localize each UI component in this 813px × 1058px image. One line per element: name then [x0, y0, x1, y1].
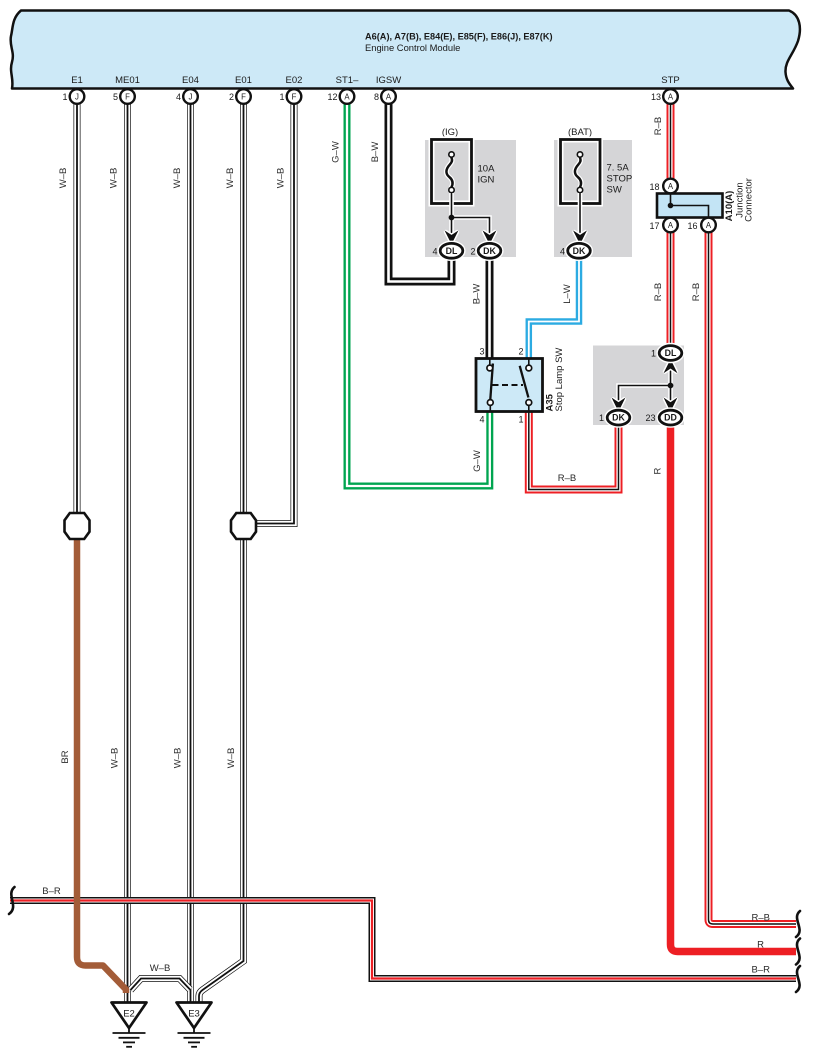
svg-text:1: 1	[651, 349, 656, 359]
svg-text:10A: 10A	[478, 164, 496, 175]
fuse block (IG) gray background	[425, 140, 516, 257]
wire link E2-E3 W-B	[131, 979, 191, 991]
junction connector A10(A) box	[657, 178, 755, 222]
break mark right R-B	[796, 911, 800, 937]
svg-text:13: 13	[651, 92, 661, 102]
svg-text:B–W: B–W	[370, 142, 381, 163]
svg-text:17: 17	[649, 221, 659, 231]
svg-text:1: 1	[279, 92, 284, 102]
arrow down into 23 DD	[665, 399, 676, 411]
pin 1 J (E1)	[62, 89, 84, 104]
svg-text:R–B: R–B	[558, 473, 576, 484]
pin 12 A (ST1-)	[327, 89, 354, 104]
svg-text:A: A	[668, 93, 674, 102]
wire junction 16A to right edge R-B	[709, 232, 797, 924]
pin 16 A circle	[687, 218, 715, 233]
svg-text:(IG): (IG)	[442, 127, 458, 138]
svg-text:W–B: W–B	[225, 168, 236, 189]
wire STP to junction 18A R-B	[667, 104, 675, 180]
svg-text:G–W: G–W	[331, 141, 342, 163]
svg-text:5: 5	[113, 92, 118, 102]
svg-text:23: 23	[645, 413, 655, 423]
svg-text:2: 2	[518, 347, 523, 357]
svg-text:J: J	[189, 93, 193, 102]
wire E04 W-B	[187, 104, 194, 1003]
break mark right R	[796, 939, 800, 965]
wire E1 W-B	[74, 104, 81, 514]
svg-text:3: 3	[479, 347, 484, 357]
fuse 10A IGN box	[432, 127, 496, 204]
arrow down into 1 DK	[613, 399, 624, 411]
svg-text:B–R: B–R	[752, 965, 771, 976]
svg-text:16: 16	[687, 221, 697, 231]
wire ME01 W-B	[124, 104, 131, 1003]
svg-text:R–B: R–B	[653, 283, 664, 301]
wire BAT fuse output	[578, 193, 583, 236]
svg-text:W–B: W–B	[150, 963, 171, 974]
svg-text:1: 1	[599, 413, 604, 423]
wire junction 17A to relay DL R-B	[667, 232, 675, 346]
wire BR brown splice to E2 ground	[77, 540, 126, 993]
svg-text:B–W: B–W	[472, 284, 483, 305]
svg-text:W–B: W–B	[58, 168, 69, 189]
break mark left B-R	[9, 887, 15, 914]
svg-text:W–B: W–B	[172, 168, 183, 189]
svg-text:A10(A): A10(A)	[724, 191, 735, 222]
svg-text:A: A	[344, 93, 350, 102]
svg-text:G–W: G–W	[472, 450, 483, 472]
svg-text:IGSW: IGSW	[376, 75, 401, 86]
svg-text:A: A	[386, 93, 392, 102]
terminal 4 DK (BAT)	[560, 243, 590, 258]
svg-text:W–B: W–B	[226, 748, 237, 769]
wire ST1- G-W green	[347, 104, 490, 487]
svg-text:W–B: W–B	[173, 748, 184, 769]
splice octagon E01/E02	[231, 513, 256, 539]
svg-text:E02: E02	[286, 75, 303, 86]
svg-text:J: J	[75, 93, 79, 102]
svg-text:1: 1	[518, 415, 523, 425]
svg-text:ST1–: ST1–	[336, 75, 359, 86]
arrow into 2 DK	[484, 232, 495, 243]
svg-text:F: F	[241, 93, 246, 102]
svg-text:8: 8	[374, 92, 379, 102]
pin 17 A circle	[649, 218, 677, 233]
svg-text:12: 12	[327, 92, 337, 102]
svg-text:W–B: W–B	[276, 168, 287, 189]
svg-text:STOP: STOP	[607, 174, 633, 185]
fuse block (BAT) gray background	[554, 140, 632, 257]
svg-text:4: 4	[560, 246, 565, 256]
svg-text:IGN: IGN	[478, 175, 495, 186]
terminal 1 DK	[599, 410, 630, 425]
svg-text:2: 2	[229, 92, 234, 102]
svg-text:E04: E04	[182, 75, 199, 86]
svg-text:R: R	[653, 467, 664, 474]
pin 4 J (E04)	[176, 89, 198, 104]
wire fuse IG output with branch	[449, 193, 490, 236]
svg-text:W–B: W–B	[109, 168, 120, 189]
pin 1 F (E02)	[279, 89, 301, 104]
svg-text:R–B: R–B	[752, 913, 770, 924]
svg-text:4: 4	[432, 246, 437, 256]
pin 13 A (STP)	[651, 89, 678, 104]
relay block internal wiring	[619, 368, 674, 404]
splice octagon E1/BR	[65, 513, 90, 539]
pin 18 A circle	[649, 179, 677, 194]
wire relay DD to right edge R thick red	[671, 426, 797, 952]
svg-text:DL: DL	[665, 348, 677, 358]
svg-text:E3: E3	[188, 1009, 200, 1020]
fuse 7.5A STOP SW box	[561, 127, 633, 204]
svg-text:F: F	[125, 93, 130, 102]
svg-text:A: A	[668, 221, 674, 230]
wire IGSW B-W black	[389, 104, 452, 282]
svg-text:(BAT): (BAT)	[568, 127, 592, 138]
break mark right B-R	[796, 966, 800, 992]
pin 2 F (E01)	[229, 89, 251, 104]
svg-text:BR: BR	[60, 750, 71, 763]
svg-text:DL: DL	[446, 246, 458, 256]
relay block gray background (DL/DK/DD)	[593, 346, 684, 426]
svg-text:Connector: Connector	[744, 178, 755, 222]
svg-text:B–R: B–R	[42, 886, 61, 897]
svg-text:A: A	[668, 182, 674, 191]
svg-text:4: 4	[479, 415, 484, 425]
wire below splice J/E octagon to E3 ground W-B	[199, 540, 244, 1002]
svg-text:E1: E1	[71, 75, 83, 86]
arrow into 4 DK	[574, 232, 585, 243]
svg-text:7. 5A: 7. 5A	[607, 163, 630, 174]
svg-text:ME01: ME01	[115, 75, 140, 86]
svg-text:1: 1	[62, 92, 67, 102]
svg-text:SW: SW	[607, 185, 622, 196]
wire BAT fuse to switch pin2 L-W blue	[529, 258, 579, 360]
arrow up into 1 DL	[665, 360, 676, 372]
terminal 23 DD	[645, 410, 681, 425]
wire E02 W-B	[256, 104, 294, 524]
svg-text:F: F	[292, 93, 297, 102]
wire E01 W-B	[240, 104, 247, 514]
svg-text:L–W: L–W	[562, 284, 573, 304]
svg-text:DK: DK	[573, 246, 586, 256]
wire B-R left edge to right edge	[10, 901, 796, 979]
svg-text:E01: E01	[235, 75, 252, 86]
pin 8 A (IGSW)	[374, 89, 396, 104]
wire switch pin1 to relay DK R-B	[529, 412, 619, 490]
svg-text:R: R	[757, 940, 764, 951]
svg-text:W–B: W–B	[110, 748, 121, 769]
wire fuse DK to stop lamp switch pin3 B-W	[486, 258, 494, 360]
arrow into 4 DL	[446, 232, 457, 243]
terminal 4 DL	[432, 243, 462, 258]
svg-text:STP: STP	[661, 75, 679, 86]
ECM banner A6(A),A7(B),E84(E),E85(F),E86(J),E87(K) Engine Control Module	[11, 11, 800, 89]
terminal 1 DL	[651, 346, 682, 361]
svg-text:Stop Lamp SW: Stop Lamp SW	[554, 348, 565, 412]
svg-text:E2: E2	[123, 1009, 135, 1020]
svg-text:A6(A), A7(B), E84(E), E85(F),: A6(A), A7(B), E84(E), E85(F), E86(J), E8…	[365, 32, 553, 42]
terminal 2 DK	[470, 243, 500, 258]
svg-text:18: 18	[649, 182, 659, 192]
ground E2	[112, 1003, 147, 1047]
svg-text:DD: DD	[664, 413, 677, 423]
svg-text:R–B: R–B	[691, 283, 702, 301]
svg-text:4: 4	[176, 92, 181, 102]
svg-text:2: 2	[470, 246, 475, 256]
svg-text:DK: DK	[612, 413, 625, 423]
svg-text:A: A	[706, 221, 712, 230]
ground E3	[177, 1003, 212, 1047]
stop lamp switch A35 box	[476, 347, 565, 425]
svg-text:Engine Control Module: Engine Control Module	[365, 42, 460, 53]
svg-text:R–B: R–B	[653, 117, 664, 135]
svg-text:DK: DK	[483, 246, 496, 256]
pin 5 F (ME01)	[113, 89, 135, 104]
